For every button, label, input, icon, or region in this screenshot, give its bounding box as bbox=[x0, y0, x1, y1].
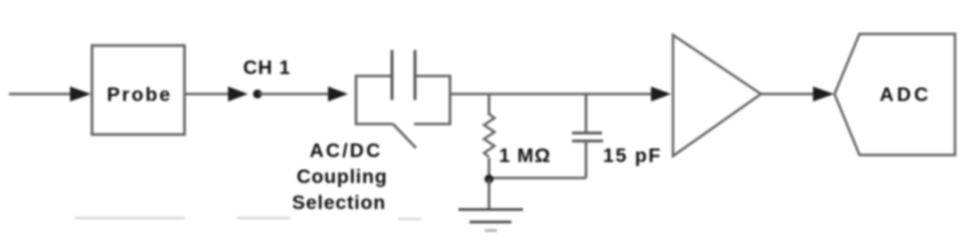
svg-text:Coupling: Coupling bbox=[297, 166, 388, 188]
arrowhead into coupling bbox=[328, 87, 348, 102]
wire input line bbox=[9, 93, 73, 96]
arrowhead into ADC bbox=[813, 87, 834, 102]
node CH 1 junction dot bbox=[253, 90, 262, 99]
wire coupling to amplifier bbox=[451, 93, 654, 96]
svg-text:15 pF: 15 pF bbox=[603, 145, 662, 167]
wire coupling loop bottom-left segment bbox=[355, 123, 393, 126]
wire capacitor top lead bbox=[585, 94, 588, 133]
capacitor coupling plate left bbox=[391, 50, 394, 100]
arrowhead into amplifier bbox=[651, 87, 671, 102]
ground bbox=[459, 210, 524, 231]
svg-text:Selection: Selection bbox=[292, 192, 386, 214]
wire resistor top lead bbox=[488, 94, 491, 115]
wire CH1 node to coupling bbox=[259, 93, 332, 96]
probe box bbox=[92, 46, 185, 135]
switch blade (open, AC/DC selection) bbox=[393, 124, 416, 148]
wire coupling loop bottom-right segment bbox=[414, 123, 451, 126]
arrowhead at CH1 node bbox=[228, 87, 248, 102]
wire ground stem bbox=[488, 179, 491, 210]
resistor 1 Mohm zigzag bbox=[484, 114, 495, 157]
wire resistor bottom lead bbox=[488, 158, 491, 179]
op-amp amplifier triangle bbox=[673, 35, 761, 156]
wire probe to CH1 node bbox=[185, 93, 232, 96]
faint artifact marks bbox=[75, 218, 421, 219]
svg-text:1 MΩ: 1 MΩ bbox=[499, 145, 551, 167]
wire coupling loop right side bbox=[449, 75, 452, 125]
ADC block (pentagon) bbox=[835, 34, 956, 155]
wire capacitor bottom lead bbox=[585, 141, 588, 178]
svg-text:CH 1: CH 1 bbox=[243, 57, 291, 79]
capacitor 15 pF bottom plate bbox=[572, 140, 603, 143]
node ground junction dot bbox=[485, 175, 494, 184]
capacitor 15 pF top plate bbox=[572, 132, 602, 135]
wire amplifier to ADC bbox=[761, 93, 817, 96]
svg-text:ADC: ADC bbox=[880, 84, 932, 106]
wire coupling loop left side bbox=[355, 75, 358, 125]
wire coupling loop top-left segment bbox=[355, 75, 392, 78]
capacitor coupling plate right bbox=[414, 50, 417, 100]
arrowhead into probe bbox=[70, 87, 91, 102]
wire capacitor bottom to ground junction bbox=[488, 177, 586, 180]
svg-text:Probe: Probe bbox=[107, 84, 172, 106]
wire coupling loop top-right segment bbox=[415, 75, 451, 78]
svg-text:AC/DC: AC/DC bbox=[310, 140, 383, 162]
